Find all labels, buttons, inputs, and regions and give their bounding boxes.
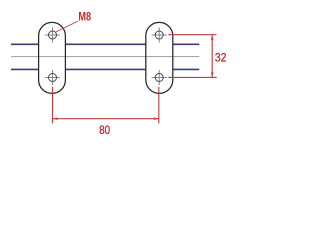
left plate fill [39, 22, 66, 93]
dim 32 line [211, 35, 213, 78]
rod lower line [11, 68, 199, 70]
center line [11, 56, 199, 58]
svg-text:32: 32 [215, 50, 227, 64]
crosshair hole left bottom [45, 70, 60, 85]
svg-text:M8: M8 [78, 12, 91, 24]
hole circle right top [155, 31, 163, 39]
M8 leader line [55, 21, 78, 32]
right plate outline [146, 22, 173, 93]
dim 80 extension right [158, 87, 160, 123]
crosshair hole right bottom [152, 70, 167, 85]
right plate fill [146, 22, 173, 93]
hole circle left top [49, 31, 57, 39]
dim 80 arrow right [154, 117, 159, 120]
hole circle left bottom [49, 74, 57, 82]
hole circle right bottom [155, 74, 163, 82]
dim 32 extension top [168, 34, 216, 36]
crosshair hole right top [152, 27, 167, 42]
dim 80 line [53, 118, 159, 120]
svg-text:80: 80 [99, 123, 110, 137]
dim 32 arrow up [211, 35, 214, 40]
dim 32 arrow down [211, 72, 214, 77]
crosshair hole left top [45, 27, 60, 42]
rod upper line [11, 43, 199, 45]
dim 80 extension left [52, 87, 54, 123]
dim 32 extension bottom [168, 76, 216, 78]
dim 80 arrow left [53, 117, 58, 120]
left plate outline [39, 22, 66, 93]
